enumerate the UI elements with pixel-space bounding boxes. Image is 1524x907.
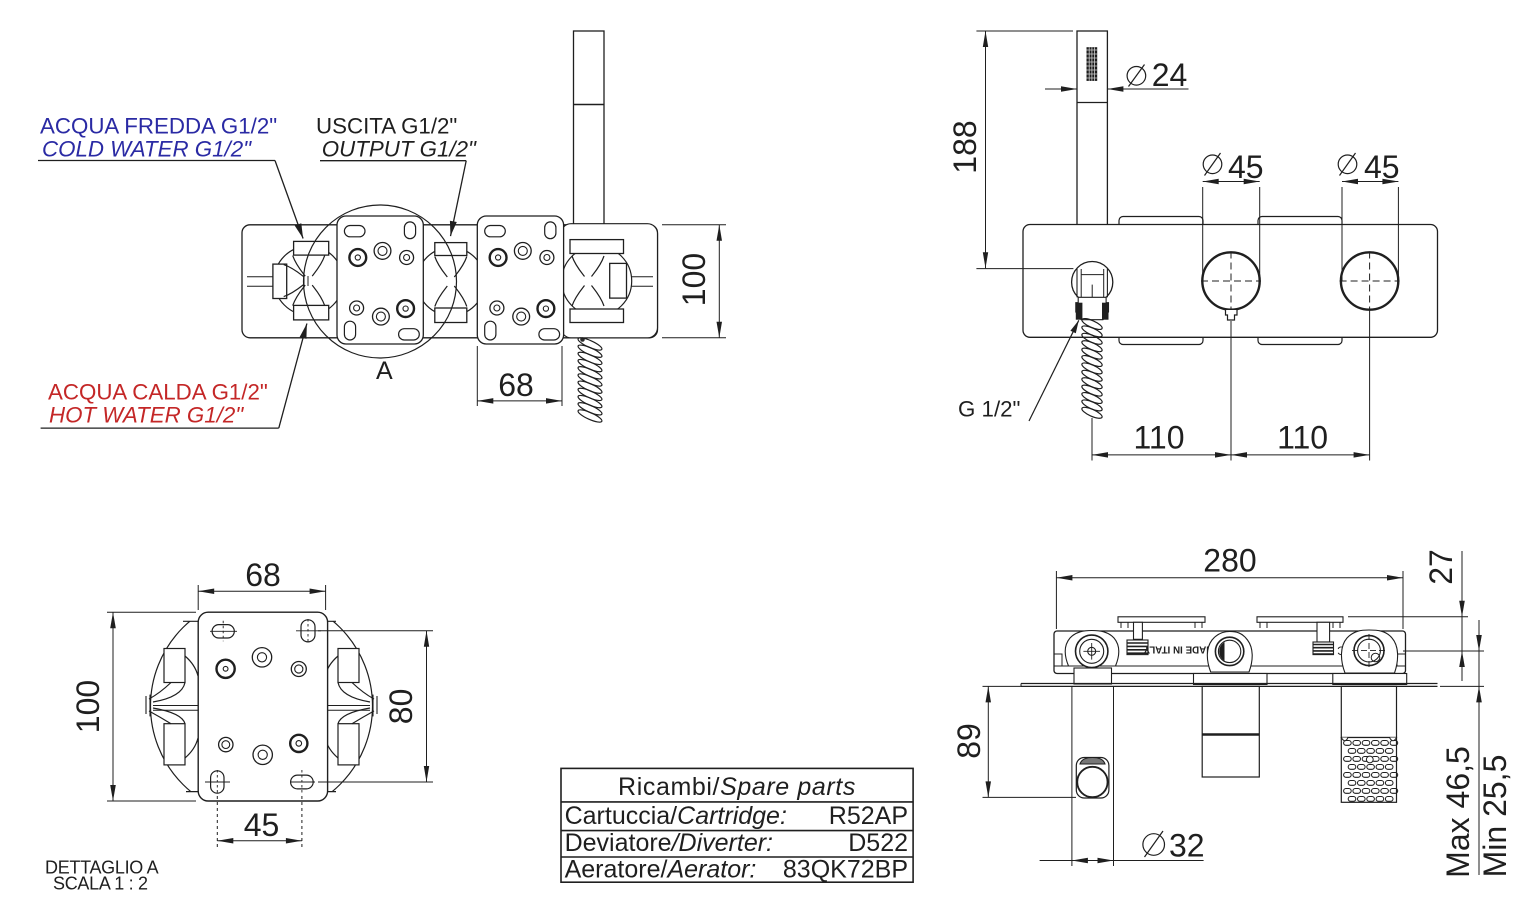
svg-text:OUTPUT G1/2": OUTPUT G1/2" bbox=[322, 137, 477, 162]
holder bracket below wall bbox=[1072, 686, 1114, 866]
svg-text:27: 27 bbox=[1423, 549, 1459, 585]
dimension diam 24 (wand) bbox=[1045, 57, 1189, 93]
svg-text:89: 89 bbox=[951, 723, 987, 759]
svg-text:280: 280 bbox=[1203, 543, 1256, 579]
leader cold water bbox=[38, 161, 303, 239]
detail circle A bbox=[304, 205, 457, 385]
dimension 27 bbox=[1348, 549, 1484, 681]
svg-text:24: 24 bbox=[1152, 57, 1188, 93]
svg-text:110: 110 bbox=[1133, 420, 1184, 456]
svg-text:83QK72BP: 83QK72BP bbox=[783, 856, 908, 884]
in-wall body (section view) bbox=[1054, 631, 1406, 674]
svg-text:D522: D522 bbox=[848, 829, 908, 857]
middle fitting (outlet tee) bbox=[417, 243, 485, 323]
dimension 280 bbox=[1056, 543, 1403, 630]
svg-text:45: 45 bbox=[1228, 149, 1264, 185]
cold/hot valve fitting left bbox=[273, 241, 343, 320]
handshower rod (plan view) bbox=[574, 31, 605, 225]
handshower wand (front view) bbox=[1077, 31, 1107, 269]
svg-text:HOT WATER G1/2": HOT WATER G1/2" bbox=[49, 403, 244, 428]
svg-text:188: 188 bbox=[947, 120, 983, 173]
flex hose (front view) bbox=[1081, 316, 1104, 420]
svg-text:Max 46,5: Max 46,5 bbox=[1440, 746, 1476, 878]
mounting plate (detail A) bbox=[198, 612, 327, 801]
valve cartridge left bbox=[1065, 631, 1118, 668]
svg-text:R52AP: R52AP bbox=[829, 802, 908, 830]
table header bbox=[618, 773, 856, 801]
svg-text:ACQUA FREDDA G1/2": ACQUA FREDDA G1/2" bbox=[40, 114, 277, 139]
mounting plate 2 bbox=[477, 216, 563, 344]
svg-text:32: 32 bbox=[1169, 828, 1205, 864]
mounting plate 1 bbox=[337, 216, 423, 344]
label G 1/2 inch with leader bbox=[958, 320, 1079, 421]
front plate (front view) bbox=[1023, 225, 1438, 338]
svg-text:SCALA 1 : 2: SCALA 1 : 2 bbox=[53, 874, 148, 894]
svg-text:G 1/2": G 1/2" bbox=[958, 397, 1020, 422]
svg-text:USCITA G1/2": USCITA G1/2" bbox=[316, 114, 457, 139]
dimension 100 (view1 height) bbox=[662, 225, 726, 338]
dimension diam 45 knob1 bbox=[1203, 149, 1264, 281]
svg-text:ACQUA CALDA G1/2": ACQUA CALDA G1/2" bbox=[48, 380, 268, 405]
flex hose (plan view) bbox=[577, 336, 604, 425]
dimension 68 (plate2 width) bbox=[477, 346, 562, 406]
svg-text:68: 68 bbox=[245, 557, 281, 593]
svg-text:Cartuccia/Cartridge:: Cartuccia/Cartridge: bbox=[565, 802, 787, 830]
knob 2 bbox=[1340, 252, 1400, 311]
dimension diam 45 knob2 bbox=[1338, 149, 1399, 281]
table row aerator bbox=[565, 856, 908, 884]
svg-text:Min 25,5: Min 25,5 bbox=[1477, 755, 1513, 878]
svg-text:100: 100 bbox=[70, 680, 106, 733]
dimension 68 (detail top) bbox=[198, 557, 325, 610]
knob 1 (diverter) bbox=[1201, 252, 1261, 321]
mixer body (plan view) bbox=[242, 225, 658, 338]
table row diverter bbox=[565, 829, 908, 857]
valve cartridge middle (diverter) bbox=[1207, 632, 1252, 673]
dimension 110 / 110 bbox=[1092, 311, 1370, 461]
svg-text:A: A bbox=[376, 357, 393, 385]
wall bracket tabs behind plate bbox=[1119, 217, 1342, 345]
svg-text:MADE IN ITALY: MADE IN ITALY bbox=[1143, 644, 1214, 655]
dimension 188 (wand height) bbox=[947, 31, 1073, 269]
dimension diam 32 bbox=[1040, 828, 1205, 864]
svg-text:Aeratore/Aerator:: Aeratore/Aerator: bbox=[565, 856, 757, 884]
dimension 45 (detail bottom) bbox=[217, 796, 302, 847]
svg-text:45: 45 bbox=[1364, 149, 1400, 185]
svg-text:Ricambi/Spare parts: Ricambi/Spare parts bbox=[618, 773, 856, 801]
table row cartridge bbox=[565, 802, 908, 830]
dimension 89 bbox=[951, 686, 1076, 797]
svg-text:Deviatore/Diverter:: Deviatore/Diverter: bbox=[565, 829, 773, 857]
hose coupling nut bbox=[1076, 297, 1109, 319]
leader outlet bbox=[320, 161, 466, 236]
body feet on wall bbox=[1074, 668, 1407, 685]
valve body circle (detail) bbox=[140, 560, 383, 837]
svg-text:80: 80 bbox=[383, 689, 419, 725]
valve cartridge right bbox=[1341, 630, 1397, 673]
label outlet bbox=[316, 114, 477, 162]
pipe centerlines bbox=[247, 277, 653, 287]
detail title bbox=[45, 858, 159, 894]
spout below wall bbox=[1202, 686, 1259, 777]
mounting post T1 bbox=[1118, 617, 1205, 655]
svg-text:68: 68 bbox=[498, 367, 534, 403]
left fitting (detail) bbox=[146, 649, 198, 765]
label cold water (blue) bbox=[40, 114, 277, 162]
leader hot water bbox=[41, 324, 307, 429]
dimension max 46,5 min 25,5 bbox=[1440, 620, 1513, 878]
knurled handle below wall bbox=[1341, 686, 1397, 802]
handshower holder ball bbox=[1072, 262, 1113, 313]
svg-text:110: 110 bbox=[1277, 420, 1328, 456]
svg-text:45: 45 bbox=[244, 807, 280, 843]
spare parts table bbox=[561, 768, 913, 882]
wall plate line bbox=[1021, 684, 1438, 687]
mounting post T2 bbox=[1257, 617, 1343, 655]
label hot water (red) bbox=[48, 380, 268, 428]
right fitting (detail) bbox=[325, 649, 377, 765]
right fitting (diverter cross) bbox=[562, 240, 632, 323]
svg-text:100: 100 bbox=[676, 253, 712, 306]
dimension 100 (detail left) bbox=[70, 612, 196, 801]
dimension 80 (detail right) bbox=[318, 631, 433, 782]
svg-text:COLD WATER G1/2": COLD WATER G1/2" bbox=[42, 137, 252, 162]
outlet block right bbox=[561, 224, 658, 338]
